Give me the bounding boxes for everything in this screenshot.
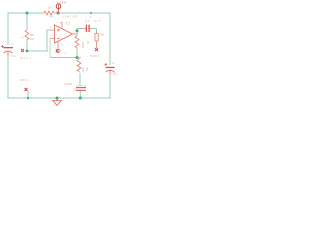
op-amp V- stub xyxy=(57,42,59,49)
op-amp plus marker xyxy=(57,29,60,32)
wire output node left short xyxy=(77,28,81,30)
wire MIC+ horizontal xyxy=(27,50,47,52)
supply +5V circle xyxy=(56,4,61,9)
op-amp U1 triangle xyxy=(55,25,73,43)
box resistor body xyxy=(95,34,98,42)
svg-text:1M: 1M xyxy=(21,37,24,40)
svg-text:R6: R6 xyxy=(50,15,54,19)
svg-text:100u: 100u xyxy=(111,72,118,76)
wire MIC- stub xyxy=(27,92,29,99)
wire right rail upper xyxy=(109,12,111,65)
wire after C4 xyxy=(91,28,97,30)
op-amp V+ stub xyxy=(60,23,62,30)
junction dot rail pin8 xyxy=(90,12,92,14)
wire top rail right xyxy=(57,12,110,14)
junction dot gnd xyxy=(56,97,59,100)
C4 plate left xyxy=(86,25,87,32)
svg-text:0.1: 0.1 xyxy=(95,19,101,23)
svg-text:R7: R7 xyxy=(86,40,90,44)
svg-text:MIC-: MIC- xyxy=(20,78,30,82)
svg-text:1M: 1M xyxy=(30,37,35,41)
label cross MIC- xyxy=(25,88,28,91)
svg-text:10: 10 xyxy=(11,43,14,47)
C4 left lead xyxy=(81,28,86,30)
C4 right lead xyxy=(90,28,92,30)
left cap bottom stub xyxy=(7,52,9,56)
upper feedback resistor zigzag xyxy=(75,36,79,50)
svg-text:MIC+: MIC+ xyxy=(20,56,32,60)
right cap top plate xyxy=(106,67,115,68)
svg-text:IC1: IC1 xyxy=(66,22,71,26)
junction dot output node xyxy=(76,29,79,32)
C8 plate bottom xyxy=(76,90,86,91)
junction dot C8 xyxy=(79,97,82,100)
svg-text:C4: C4 xyxy=(85,19,90,23)
right cap arc plate xyxy=(106,70,115,72)
junction dot supply xyxy=(57,12,60,15)
right cap C5 plus sign xyxy=(104,63,107,66)
svg-text:47u: 47u xyxy=(11,54,17,58)
svg-text:1K: 1K xyxy=(48,6,52,10)
wire upper fb resistor top xyxy=(76,29,78,36)
C4 plate right xyxy=(88,25,89,32)
wire feedback horizontal xyxy=(50,57,81,59)
svg-text:BUF4: BUF4 xyxy=(91,54,100,58)
op-amp output stub xyxy=(73,33,77,35)
background xyxy=(0,0,120,108)
op-amp plus input stub xyxy=(52,29,55,31)
op-amp minus input stub xyxy=(52,38,55,40)
wire lower resistor to C8 xyxy=(79,73,81,86)
wire minus riser xyxy=(49,39,51,58)
resistor R5 zigzag xyxy=(25,29,29,43)
wire top rail left xyxy=(8,12,41,14)
box resistor bottom lead xyxy=(96,41,98,48)
C8 plate top light xyxy=(76,85,86,88)
label cross BUF xyxy=(95,48,98,51)
label cross MIC+ xyxy=(21,49,24,52)
left cap top plate xyxy=(4,47,14,48)
svg-text:J1#TSP: J1#TSP xyxy=(62,14,78,18)
svg-text:R8: R8 xyxy=(85,67,89,71)
label cross opamp vminus xyxy=(56,49,59,52)
wire minus input stub xyxy=(50,38,52,40)
svg-text:22R6: 22R6 xyxy=(64,82,73,86)
resistor R6 zigzag xyxy=(41,11,57,15)
op-amp V- pin circle xyxy=(57,49,61,53)
left cap C2 plus sign xyxy=(1,45,4,48)
junction dot feedback node xyxy=(76,56,79,59)
svg-text:+25V: +25V xyxy=(57,0,66,4)
lower resistor zigzag xyxy=(77,60,81,73)
wire output riser xyxy=(76,29,78,35)
box resistor top lead xyxy=(96,31,98,34)
left cap arc plate xyxy=(4,51,13,53)
C8 plate top xyxy=(76,87,86,88)
right cap bottom stub xyxy=(109,71,111,74)
wire to plus input xyxy=(46,29,52,31)
wire R5 to MIC+ node xyxy=(26,42,28,51)
wire down to box resistor xyxy=(96,29,98,32)
svg-text:C8: C8 xyxy=(73,87,77,91)
wire left rail lower xyxy=(7,56,9,98)
svg-text:10K: 10K xyxy=(99,33,104,37)
svg-text:100K: 100K xyxy=(81,42,85,49)
wire output stub teal xyxy=(76,33,78,35)
wire C8 to bottom rail xyxy=(79,91,81,98)
wire left rail xyxy=(7,12,9,45)
wire upper fb resistor bottom xyxy=(76,50,78,58)
wire lower resistor top stub xyxy=(78,58,80,60)
wire MIC+ riser xyxy=(46,30,48,52)
op-amp minus marker xyxy=(57,38,60,40)
junction dot MIC- stub xyxy=(27,97,29,99)
gnd symbol triangle xyxy=(53,99,62,106)
wire R5 riser xyxy=(26,13,28,29)
svg-text:10: 10 xyxy=(112,61,115,65)
wire right rail lower xyxy=(109,73,111,99)
junction dot MIC+ corner xyxy=(26,50,29,53)
supply +5V riser xyxy=(57,4,59,13)
junction dot top-left xyxy=(26,12,29,15)
wire bottom rail xyxy=(7,97,110,99)
